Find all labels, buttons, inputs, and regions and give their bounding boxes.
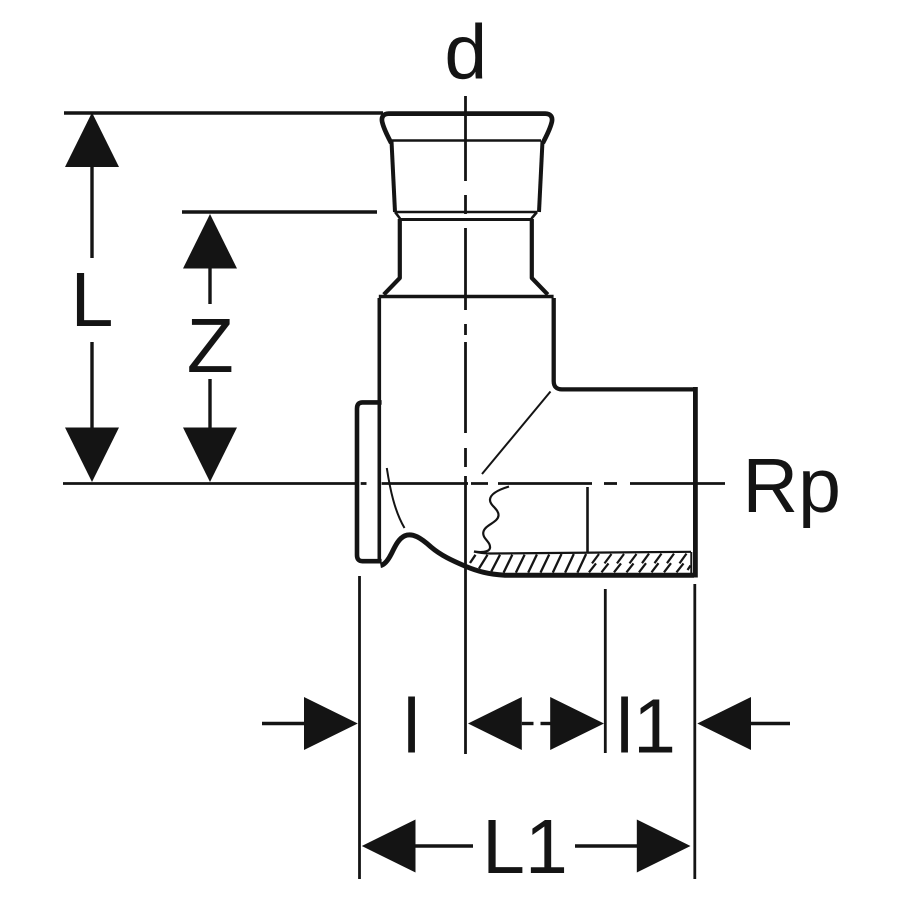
svg-text:d: d (444, 10, 487, 96)
svg-text:Rp: Rp (743, 443, 841, 529)
svg-text:l: l (403, 684, 420, 770)
svg-text:l1: l1 (616, 684, 676, 770)
svg-text:Z: Z (187, 303, 234, 389)
svg-text:L: L (71, 257, 114, 343)
svg-text:L1: L1 (482, 804, 568, 890)
